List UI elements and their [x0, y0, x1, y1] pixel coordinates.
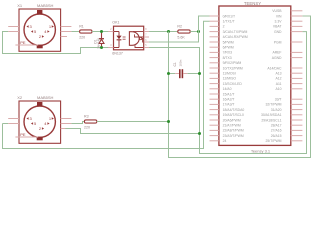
gate output to pin 6 — [142, 39, 144, 43]
Teensy pin 27/A16 — [291, 129, 303, 131]
svg-text:1/TX1/T: 1/TX1/T — [223, 20, 235, 24]
Teensy pin 26/A15 — [291, 135, 303, 137]
svg-text:A14/DAC: A14/DAC — [267, 66, 282, 70]
Teensy pin VIN — [291, 15, 303, 17]
Teensy pin 31/A20 — [291, 109, 303, 111]
svg-text:20/A6/PWM: 20/A6/PWM — [223, 118, 241, 122]
Teensy pin A11 — [291, 83, 303, 85]
X1 pin PE line — [15, 44, 38, 46]
svg-text:5/PWM: 5/PWM — [223, 40, 234, 44]
Teensy pin A12 — [291, 77, 303, 79]
OK1 pin 5 stub — [144, 47, 149, 49]
svg-text:7/RX3: 7/RX3 — [223, 51, 233, 55]
svg-text:24: 24 — [223, 139, 227, 143]
OK1 pin 7 stub — [144, 36, 149, 38]
Teensy pin 7/RX3 — [210, 51, 219, 53]
Teensy pin 6/PWM — [210, 46, 219, 48]
Teensy pin 21/A7/PWM — [210, 124, 219, 126]
wire R2 to RX net — [190, 31, 198, 33]
svg-text:4/CAN-RX/PWM: 4/CAN-RX/PWM — [223, 35, 248, 39]
svg-text:2: 2 — [223, 25, 225, 29]
svg-text:X1: X1 — [17, 3, 23, 8]
X1 pin 5 stub — [8, 31, 19, 33]
svg-text:29/A18/SCL1: 29/A18/SCL1 — [261, 118, 281, 122]
X1 pin 5 designator — [31, 30, 33, 33]
Teensy pin 4/CAN-RX/PWM — [210, 36, 219, 38]
Teensy pin 20/A6/PWM — [210, 119, 219, 121]
wire +5V net: rail to Teensy VIN — [169, 16, 311, 158]
svg-text:21/A7/PWM: 21/A7/PWM — [223, 124, 241, 128]
svg-text:R3: R3 — [84, 115, 89, 119]
Teensy pin A10 — [291, 88, 303, 90]
svg-text:18/A4/T/SDA0: 18/A4/T/SDA0 — [223, 108, 245, 112]
node C1 right — [198, 72, 201, 75]
pin 5 inner line — [135, 45, 144, 47]
svg-text:25/T/PWM: 25/T/PWM — [265, 139, 281, 143]
svg-text:VBAT: VBAT — [273, 25, 282, 29]
Teensy pin 25/T/PWM — [291, 140, 303, 142]
svg-text:6N137: 6N137 — [112, 52, 123, 56]
Teensy pin GND — [291, 31, 303, 33]
pin 8 inner line — [133, 31, 144, 33]
Teensy pin 3.3V — [291, 20, 303, 22]
svg-text:28/A17: 28/A17 — [271, 124, 282, 128]
X1 pin 1 stub — [61, 26, 72, 28]
Teensy pin 18/A4/T/SDA0 — [210, 109, 219, 111]
X2 pin 3 designator — [26, 117, 28, 120]
Teensy pin 28/A17 — [291, 124, 303, 126]
X2 pin 5 stub — [8, 123, 19, 125]
X1 pin 3 stub — [8, 26, 19, 28]
wire X2 pin4 to R3 — [71, 122, 84, 124]
svg-text:32/T/PWM: 32/T/PWM — [265, 103, 281, 107]
resistor R1 220 — [80, 30, 92, 33]
OK1 internal gate — [129, 32, 139, 46]
Teensy pin 14/A0 — [210, 88, 219, 90]
OK1 pin 3 stub — [108, 47, 113, 49]
wire X2 pin5 left — [3, 123, 9, 125]
X2 pin 3 stub — [8, 118, 19, 120]
svg-text:GND: GND — [274, 30, 282, 34]
Teensy pin 32/T/PWM — [291, 103, 303, 105]
svg-text:3.3V: 3.3V — [275, 20, 283, 24]
svg-text:X2: X2 — [17, 95, 23, 100]
node C1 left — [167, 72, 170, 75]
node R3 to +5V — [167, 120, 170, 123]
svg-text:16/A2/T: 16/A2/T — [223, 98, 235, 102]
node RX pullup — [197, 30, 200, 33]
Teensy pin AGND — [291, 57, 303, 59]
node X2 pin2 to GND — [198, 132, 201, 135]
svg-text:PE: PE — [20, 40, 26, 45]
wire OK1 pin8 to node +5V — [149, 31, 178, 33]
svg-text:R2: R2 — [177, 25, 182, 29]
svg-text:R1: R1 — [79, 25, 84, 29]
X2 pin 5 designator — [31, 122, 33, 125]
svg-text:A11: A11 — [276, 82, 282, 86]
Teensy pin 11/MOSI — [210, 72, 219, 74]
Teensy pin 15/A1/T — [210, 93, 219, 95]
Teensy pin 1/TX1/T — [210, 20, 219, 22]
svg-text:Teensy 3.1: Teensy 3.1 — [251, 148, 271, 153]
svg-text:27/A16: 27/A16 — [271, 129, 282, 133]
svg-text:100n: 100n — [178, 59, 182, 66]
svg-text:MAB5SH: MAB5SH — [37, 95, 54, 100]
Teensy pin AREF — [291, 51, 303, 53]
svg-text:26/A15: 26/A15 — [271, 134, 282, 138]
svg-text:33/T: 33/T — [275, 98, 282, 102]
X1 pin 4 stub — [61, 31, 72, 33]
wire TX net: X2 pin5 around to Teensy TX1 — [3, 21, 210, 148]
Teensy pin 17/A3/T — [210, 103, 219, 105]
svg-text:5.6K: 5.6K — [177, 36, 185, 40]
wire X1 pin4 to R1 — [71, 31, 79, 33]
Teensy pin 3/CAN-TX/PWM — [210, 31, 219, 33]
node +5V at R2 left — [167, 30, 170, 33]
svg-text:17/A3/T: 17/A3/T — [223, 103, 235, 107]
svg-text:10/TX2/PWM: 10/TX2/PWM — [223, 66, 243, 70]
capacitor C1 100n — [169, 73, 176, 75]
svg-text:23/A9/T/PWM: 23/A9/T/PWM — [223, 134, 244, 138]
svg-text:30/A19/SDA1: 30/A19/SDA1 — [261, 113, 282, 117]
svg-text:6/PWM: 6/PWM — [223, 46, 234, 50]
svg-text:PE: PE — [20, 132, 26, 137]
Teensy pin VBAT — [291, 25, 303, 27]
Teensy pin 30/A19/SDA1 — [291, 114, 303, 116]
pin 7 enable inner line — [135, 34, 144, 37]
svg-text:22/A8/T/PWM: 22/A8/T/PWM — [223, 129, 244, 133]
X1 pin 2 stub — [61, 36, 67, 38]
OK1 pin 6 stub — [144, 41, 149, 43]
diode D1 1N4148 — [101, 33, 103, 39]
Teensy pin 0/RX1/T — [210, 15, 219, 17]
OK1 pin 8 stub — [144, 31, 149, 33]
Teensy pin 22/A8/T/PWM — [210, 129, 219, 131]
svg-text:AREF: AREF — [272, 51, 281, 55]
Teensy pin 12/MISO — [210, 77, 219, 79]
svg-text:13/SCK/LED: 13/SCK/LED — [223, 82, 243, 86]
resistor R2 5.6K — [178, 30, 190, 33]
svg-text:AGND: AGND — [272, 56, 282, 60]
svg-text:0/RX1/T: 0/RX1/T — [223, 14, 235, 18]
svg-text:VUSB: VUSB — [272, 9, 282, 13]
Teensy pin A14/DAC — [291, 67, 303, 69]
svg-text:31/A20: 31/A20 — [271, 108, 282, 112]
wire R1 to opto pin2 (node with D1) — [92, 31, 114, 33]
Teensy pin 2 — [210, 25, 219, 27]
OK1 pin 2 stub — [108, 31, 113, 33]
Teensy pin 10/TX2/PWM — [210, 67, 219, 69]
Teensy pin 8/TX3 — [210, 57, 219, 59]
svg-text:220: 220 — [79, 36, 85, 40]
svg-text:220: 220 — [84, 126, 90, 130]
wire X1 pin5 around to opto pin3 — [3, 32, 114, 54]
svg-text:3/CAN-TX/PWM: 3/CAN-TX/PWM — [223, 30, 248, 34]
svg-text:12/MISO: 12/MISO — [223, 77, 237, 81]
Teensy pin 16/A2/T — [210, 98, 219, 100]
wire X2 pin2 to GND rail — [65, 129, 199, 134]
Teensy pin 23/A9/T/PWM — [210, 135, 219, 137]
Teensy pin 5/PWM — [210, 41, 219, 43]
Teensy pin PGM — [291, 41, 303, 43]
Teensy pin 24 — [210, 140, 219, 142]
svg-text:C1: C1 — [173, 62, 177, 66]
svg-text:VIN: VIN — [276, 14, 282, 18]
Teensy pin 33/T — [291, 98, 303, 100]
X2 pin 1 stub — [61, 118, 72, 120]
X2 pin PE line — [15, 136, 38, 138]
svg-text:15/A1/T: 15/A1/T — [223, 92, 235, 96]
svg-text:A10: A10 — [275, 87, 281, 91]
svg-text:A13: A13 — [275, 72, 281, 76]
OK1 internal LED — [114, 31, 120, 33]
Teensy pin A13 — [291, 72, 303, 74]
wire GND net: OK1 pin5 / C1 / X2 pin2 to Teensy GND — [149, 32, 307, 154]
resistor R3 220 — [84, 120, 96, 123]
svg-text:1N4148: 1N4148 — [96, 38, 100, 49]
svg-text:8/TX3: 8/TX3 — [223, 56, 232, 60]
Teensy pin 13/SCK/LED — [210, 83, 219, 85]
wire OK1 pin6 to Teensy RX1 — [149, 16, 210, 42]
Teensy pin 19/A5/T/SCL0 — [210, 114, 219, 116]
svg-text:OK1: OK1 — [112, 21, 119, 25]
Teensy pin 29/A18/SCL1 — [291, 119, 303, 121]
svg-text:A12: A12 — [275, 77, 281, 81]
Teensy pin VUSB — [291, 10, 303, 12]
svg-text:MAB5SH: MAB5SH — [37, 3, 54, 8]
X2 pin 2 stub — [61, 128, 67, 130]
svg-text:PGM: PGM — [274, 40, 282, 44]
wire R3 to +5V rail — [97, 121, 169, 123]
X2 pin 4 stub — [61, 123, 72, 125]
svg-text:9/RX2/PWM: 9/RX2/PWM — [223, 61, 242, 65]
X1 pin 3 designator — [26, 25, 28, 28]
node D1 bottom junction — [100, 46, 103, 49]
svg-text:19/A5/T/SCL0: 19/A5/T/SCL0 — [223, 113, 244, 117]
Teensy pin 9/RX2/PWM — [210, 62, 219, 64]
node D1 top junction — [100, 30, 103, 33]
svg-text:11/MOSI: 11/MOSI — [223, 72, 236, 76]
svg-text:14/A0: 14/A0 — [223, 87, 232, 91]
